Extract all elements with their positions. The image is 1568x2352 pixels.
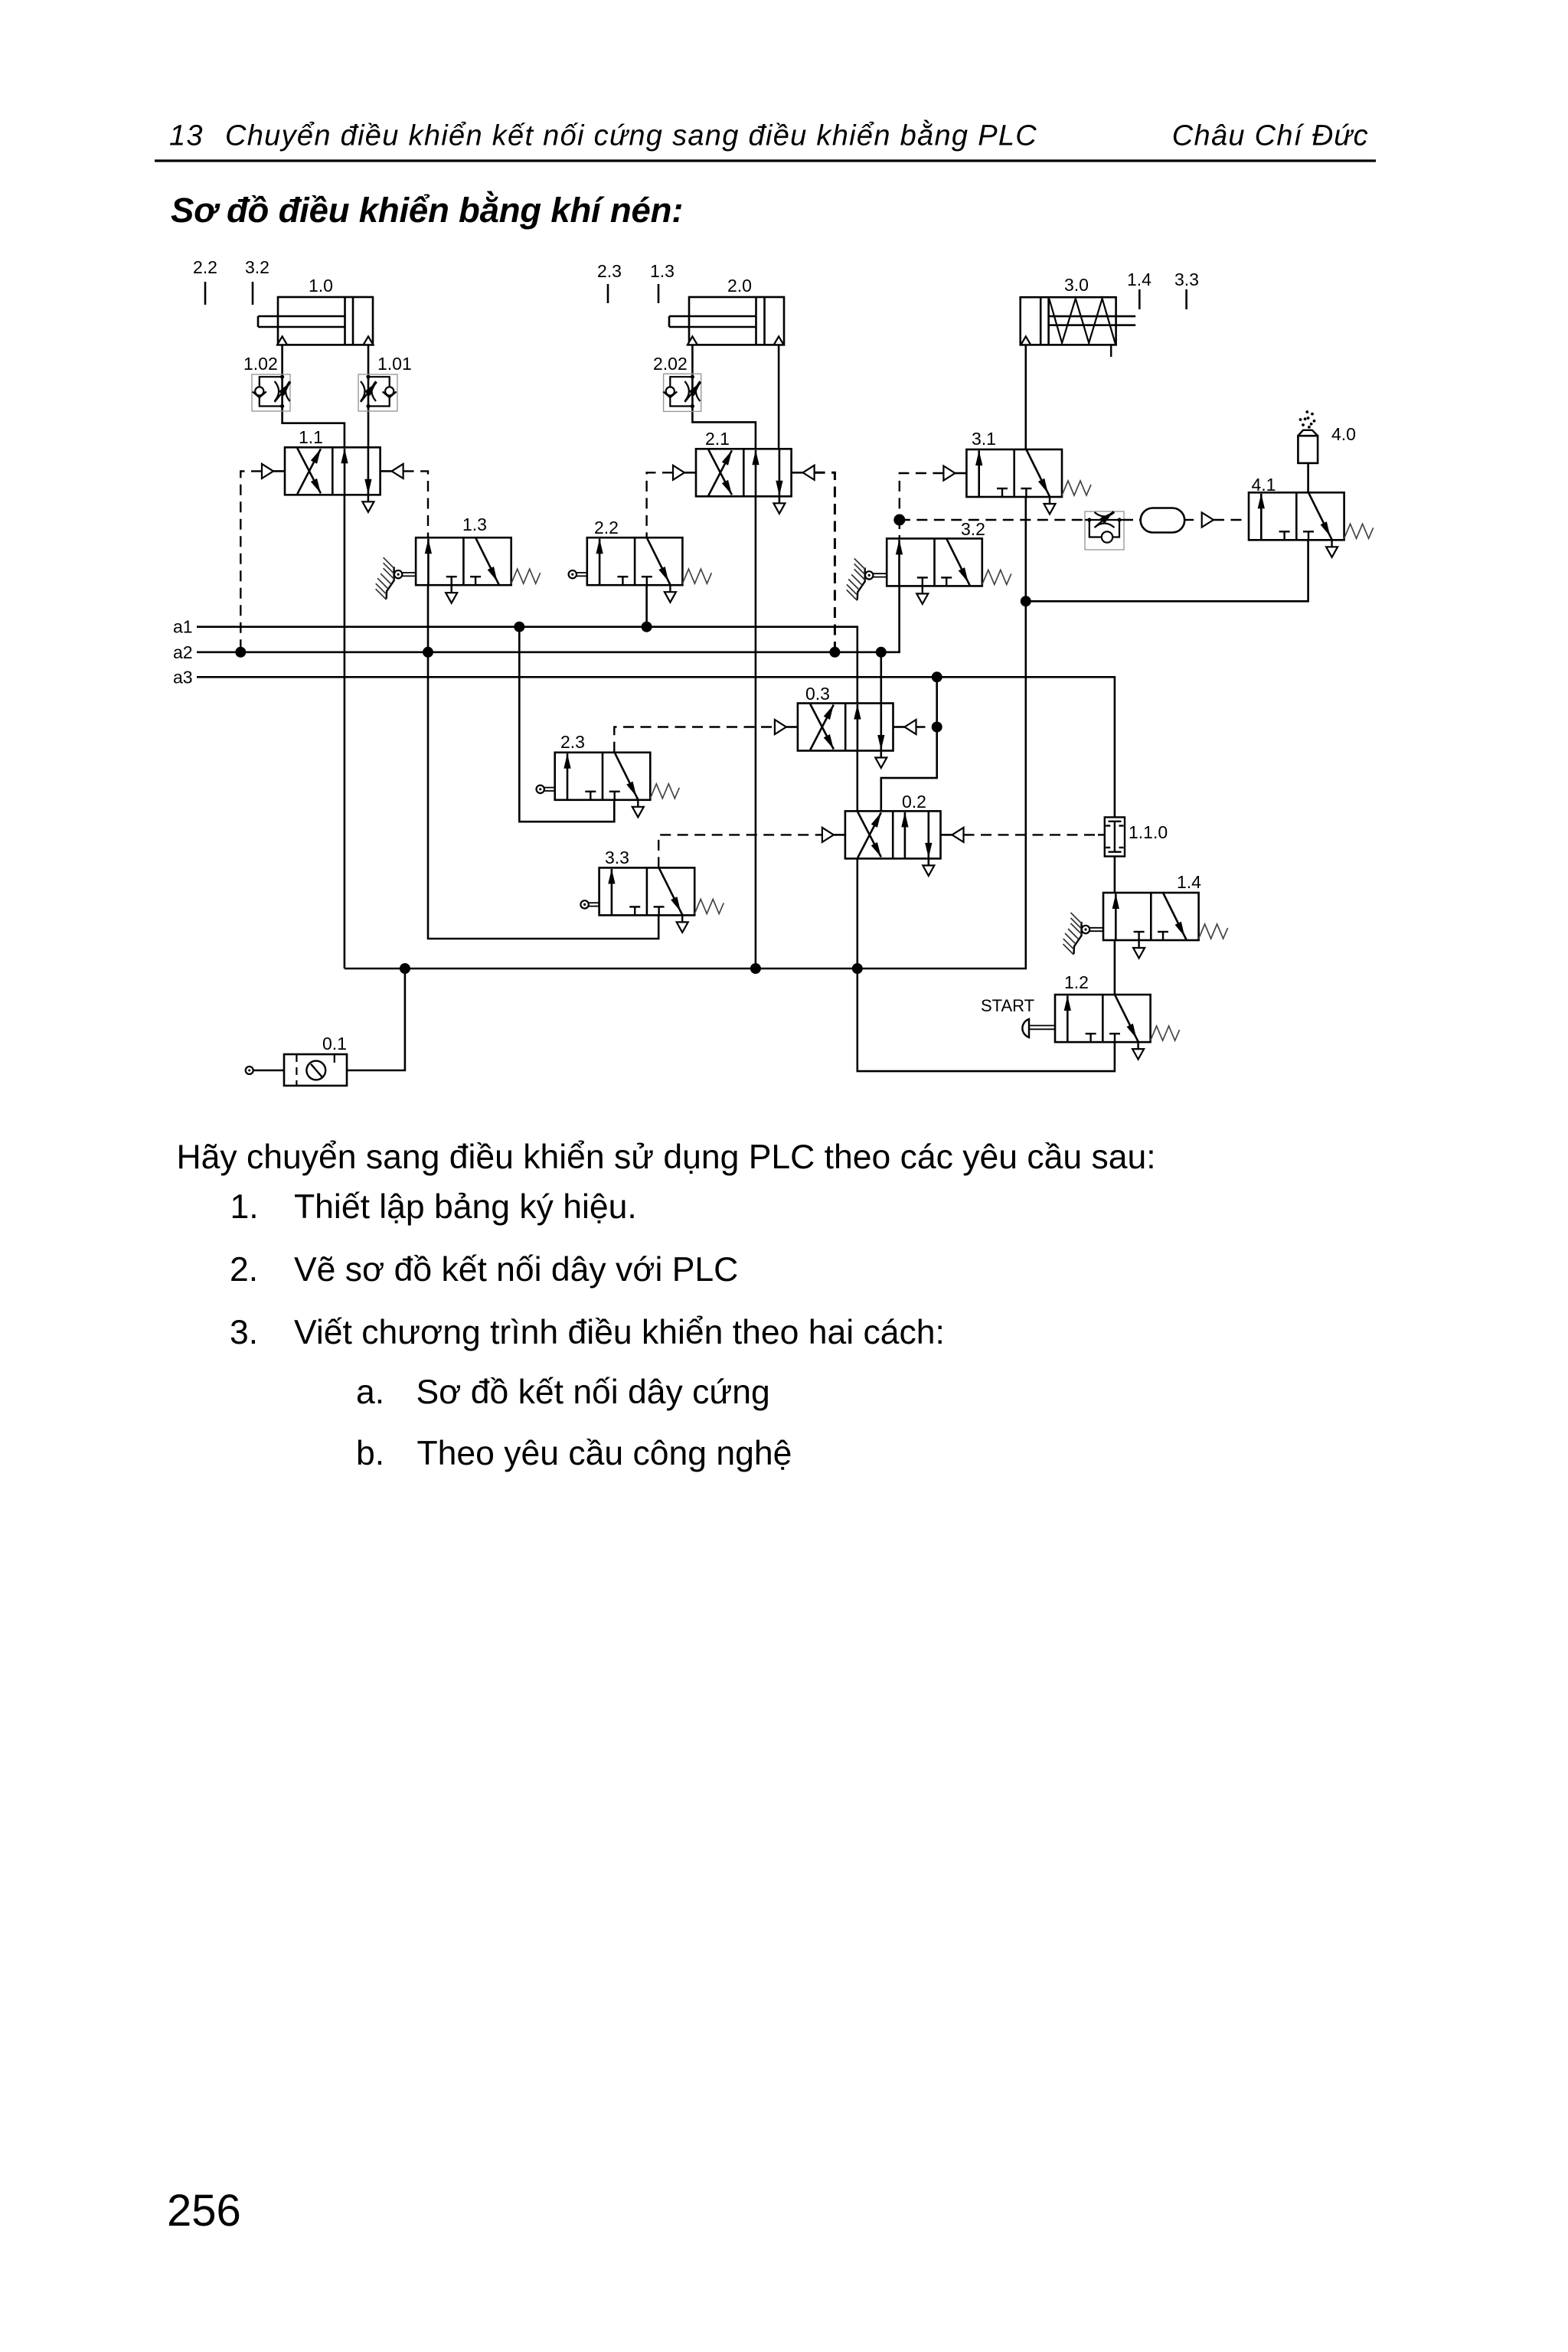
line a2	[197, 586, 900, 652]
svg-text:Sơ đồ điều khiển bằng khí nén:: Sơ đồ điều khiển bằng khí nén:	[171, 190, 683, 230]
junction dot bus valve 2.1	[750, 963, 761, 974]
wire valve 4.1 to nozzle 4.0	[1307, 463, 1309, 492]
cylinder 1.0 left port	[277, 336, 287, 345]
junction dot a1 valve 2.3 supply	[514, 622, 524, 632]
valve 3.1	[966, 449, 1062, 497]
valve 2.1	[696, 449, 792, 496]
valve 4.1	[1249, 492, 1344, 540]
junction dot supply section 3-4	[1021, 596, 1031, 606]
svg-text:3.0: 3.0	[1064, 275, 1089, 295]
valve 0.3 left pilot	[786, 726, 798, 728]
pilot line valve 0.2 to valve 1.1.0	[964, 834, 1099, 835]
svg-text:1.1.0: 1.1.0	[1129, 822, 1168, 842]
svg-text:Vẽ sơ đồ kết nối dây với PLC: Vẽ sơ đồ kết nối dây với PLC	[294, 1251, 738, 1289]
valve 3.3 roller	[580, 900, 588, 908]
wire valve 0.3 to valve 0.2	[857, 751, 859, 812]
svg-text:2.3: 2.3	[560, 732, 585, 752]
svg-text:2.1: 2.1	[705, 429, 730, 449]
valve 0.2 right pilot	[941, 834, 952, 836]
svg-text:3.2: 3.2	[245, 257, 269, 277]
valve 0.3 right pilot	[893, 726, 905, 728]
svg-text:2.02: 2.02	[653, 354, 688, 374]
cylinder 3.0	[1021, 297, 1116, 345]
junction dot a2 valve 1.3 supply	[423, 647, 433, 658]
wire a2 to valve 0.3 port	[880, 652, 883, 704]
svg-text:Châu Chí Đức: Châu Chí Đức	[1172, 120, 1369, 152]
valve 1.2 push button	[1022, 1019, 1029, 1037]
wire a2 to valve 3.3 supply	[428, 652, 658, 939]
svg-text:a1: a1	[173, 617, 193, 637]
pilot stub valve 0.3 right	[916, 726, 937, 727]
valve 2.3 roller	[537, 786, 544, 793]
pilot line valve 2.2 to valve 2.1	[647, 472, 673, 537]
valve 2.2	[587, 537, 683, 585]
svg-text:1.0: 1.0	[309, 276, 333, 296]
cylinder 2.0 right port	[774, 336, 784, 345]
svg-text:Chuyển điều khiển kết nối cứng: Chuyển điều khiển kết nối cứng sang điều…	[225, 119, 1037, 152]
valve 1.4 roller lever	[1074, 922, 1082, 954]
pilot line a2 to valve 1.1	[240, 471, 262, 652]
air source symbol	[246, 1067, 253, 1074]
valve 3.2 roller lever	[857, 567, 865, 599]
wire a3 branch to valve 0.2	[881, 677, 937, 811]
valve 2.1 right pilot	[792, 472, 803, 474]
wire valve 2.3 supply from a1	[519, 627, 614, 822]
svg-text:1.2: 1.2	[1064, 972, 1089, 992]
svg-text:START: START	[981, 996, 1034, 1015]
wire cylinder 2.0 left port to valve 2.1	[692, 345, 756, 449]
valve 3.2	[887, 538, 982, 586]
cylinder 1.0 right port	[364, 336, 374, 345]
svg-text:1.3: 1.3	[650, 261, 675, 281]
valve 0.2	[845, 811, 941, 858]
pilot line valve 3.3 to valve 0.2	[658, 835, 822, 867]
svg-text:1.3: 1.3	[462, 514, 487, 534]
wire valve 0.2 supply	[857, 858, 859, 969]
svg-text:2.2: 2.2	[193, 257, 217, 277]
flow control valve 1.01	[358, 374, 397, 411]
junction dot a2 pilot 1.1	[235, 647, 246, 658]
svg-text:1.4: 1.4	[1177, 872, 1201, 892]
pilot junction dot valve 3.2 output	[893, 514, 905, 526]
svg-text:2.2: 2.2	[594, 518, 619, 537]
wire cylinder 1.0 left port to valve 1.1	[283, 345, 345, 447]
svg-text:Sơ đồ kết nối dây cứng: Sơ đồ kết nối dây cứng	[416, 1374, 770, 1411]
wire cylinder 1.0 right port to valve 1.1	[367, 345, 370, 447]
svg-text:3.2: 3.2	[961, 519, 985, 539]
wire cylinder 3.0 to valve 3.1	[1025, 345, 1027, 449]
throttle check valve of timer	[1085, 511, 1124, 550]
svg-text:1.01: 1.01	[377, 354, 412, 374]
wire valve 1.2 supply loop	[857, 969, 1115, 1071]
valve 0.3	[798, 704, 893, 751]
svg-text:a3: a3	[173, 667, 193, 687]
svg-text:0.3: 0.3	[805, 684, 830, 704]
flow control valve 2.02	[664, 374, 701, 411]
valve 1.1 right pilot	[381, 470, 392, 472]
svg-text:3.1: 3.1	[972, 429, 996, 449]
line a1	[197, 627, 857, 704]
junction dot a2 pilot 2.1	[829, 647, 840, 658]
wire valve 2.1 supply	[755, 496, 757, 969]
wire valve 3.1 supply	[1025, 497, 1027, 601]
svg-text:13: 13	[169, 120, 204, 152]
line a3	[197, 677, 1115, 817]
svg-text:b.: b.	[356, 1435, 384, 1472]
valve 0.2 left pilot	[834, 834, 845, 836]
pilot line valve 1.3 to valve 1.1	[403, 471, 428, 537]
wire cylinder 2.0 right port to valve 2.1	[778, 345, 780, 449]
svg-text:256: 256	[167, 2186, 241, 2236]
svg-text:3.3: 3.3	[1174, 269, 1199, 289]
flow control valve 1.02	[252, 374, 290, 411]
svg-text:1.: 1.	[230, 1188, 259, 1226]
svg-text:2.0: 2.0	[727, 276, 752, 296]
cylinder 3.0 port	[1021, 336, 1031, 345]
svg-text:0.2: 0.2	[902, 792, 926, 812]
pilot line throttle to reservoir	[1124, 519, 1141, 521]
svg-text:1.4: 1.4	[1127, 269, 1151, 289]
svg-text:2.3: 2.3	[597, 261, 622, 281]
svg-text:3.3: 3.3	[605, 848, 629, 867]
svg-text:4.0: 4.0	[1331, 424, 1356, 444]
wire supply to valve 4.1	[1026, 539, 1308, 601]
svg-text:Theo yêu cầu công nghệ: Theo yêu cầu công nghệ	[417, 1435, 792, 1472]
wire 1.1.0 to valve 1.4	[1114, 857, 1116, 893]
pilot line amplifier to valve 4.1	[1214, 519, 1249, 521]
valve 1.3	[416, 537, 511, 585]
component 1.1.0	[1105, 817, 1125, 856]
nozzle 4.0	[1298, 436, 1318, 463]
wire valve 2.2 supply from a1	[645, 585, 648, 627]
svg-text:1.1: 1.1	[299, 427, 323, 447]
svg-text:a.: a.	[356, 1374, 384, 1411]
valve 2.2 roller	[569, 570, 577, 578]
svg-text:2.: 2.	[230, 1251, 258, 1289]
svg-text:0.1: 0.1	[322, 1034, 347, 1053]
pilot line a2 to valve 2.1	[815, 472, 835, 652]
header rule	[155, 159, 1376, 162]
valve 1.2	[1055, 995, 1151, 1042]
wire air service unit to bus	[347, 969, 405, 1070]
pilot line valve 2.3 to valve 0.3	[614, 727, 775, 753]
junction dot a3 pilot 0.3	[932, 722, 942, 733]
valve 3.3	[599, 867, 695, 915]
pilot line junction to valve 3.1	[900, 473, 944, 520]
svg-text:Hãy chuyển sang điều khiển sử: Hãy chuyển sang điều khiển sử dụng PLC t…	[177, 1138, 1156, 1176]
valve 2.3	[555, 753, 651, 800]
valve 1.3 roller lever	[387, 567, 394, 599]
valve 1.4	[1103, 893, 1199, 940]
amplifier triangle	[1202, 513, 1214, 528]
wire valve 1.4 to valve 1.2	[1114, 940, 1116, 995]
pilot line junction to timer	[900, 519, 1085, 521]
svg-text:Thiết lập bảng ký hiệu.: Thiết lập bảng ký hiệu.	[294, 1188, 637, 1226]
valve 2.1 left pilot	[684, 472, 696, 474]
junction dot a1 valve 2.2 supply	[642, 622, 652, 632]
wire valve 1.3 supply from a2	[427, 585, 430, 652]
svg-text:3.: 3.	[230, 1314, 258, 1351]
svg-text:Viết chương trình điều khiển t: Viết chương trình điều khiển theo hai cá…	[294, 1314, 945, 1351]
pressure bus line	[345, 601, 1026, 969]
valve 1.1 left pilot	[273, 470, 285, 472]
wire valve 1.1 supply	[344, 495, 346, 969]
pilot line reservoir to amplifier	[1184, 519, 1197, 521]
junction dot a3 branch	[932, 671, 942, 682]
air reservoir	[1141, 508, 1185, 533]
cylinder 2.0 left port	[688, 336, 697, 345]
svg-text:1.02: 1.02	[243, 354, 278, 374]
cylinder 2.0	[689, 297, 784, 345]
junction dot bus valve 0.2	[852, 963, 863, 974]
cylinder 3.0 vent stub	[1110, 345, 1112, 357]
pilot line valve 3.2 output	[899, 520, 900, 538]
junction dot a2 to valve 0.3	[876, 647, 887, 658]
valve 1.1	[285, 447, 381, 495]
svg-text:a2: a2	[173, 642, 193, 662]
cylinder 1.0	[278, 297, 373, 345]
valve 3.1 left pilot	[955, 472, 966, 475]
junction dot bus air supply	[400, 963, 410, 974]
air service unit 0.1	[284, 1054, 347, 1086]
